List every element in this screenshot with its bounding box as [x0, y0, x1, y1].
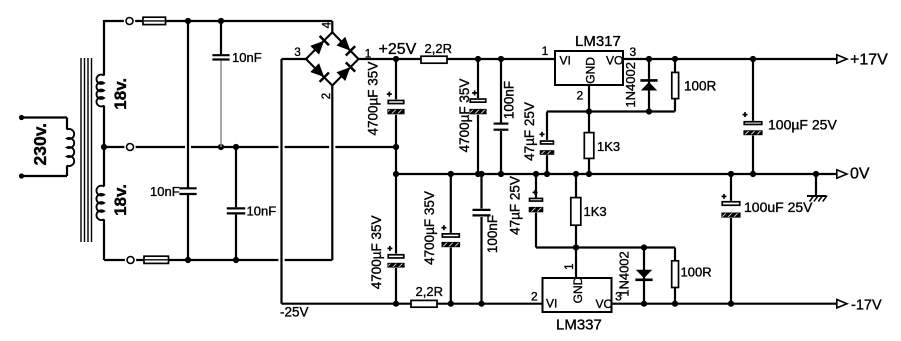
- svg-text:1K3: 1K3: [584, 204, 607, 219]
- svg-text:18v.: 18v.: [111, 184, 130, 216]
- svg-text:2,2R: 2,2R: [416, 284, 443, 299]
- svg-text:VO: VO: [596, 297, 613, 311]
- svg-text:100nF: 100nF: [502, 81, 517, 119]
- svg-text:4700µF 35V: 4700µF 35V: [366, 62, 381, 136]
- svg-text:GND: GND: [583, 57, 597, 84]
- svg-text:2,2R: 2,2R: [425, 41, 452, 56]
- svg-text:10nF: 10nF: [232, 50, 262, 65]
- svg-text:0V: 0V: [850, 166, 870, 183]
- svg-text:LM337: LM337: [556, 317, 602, 334]
- svg-text:4700µF 35V: 4700µF 35V: [457, 79, 472, 153]
- svg-text:1: 1: [564, 263, 576, 269]
- svg-text:GND: GND: [571, 276, 585, 303]
- svg-text:100uF 25V: 100uF 25V: [744, 199, 813, 215]
- svg-text:2: 2: [576, 88, 583, 102]
- svg-text:VI: VI: [546, 297, 557, 311]
- svg-text:2: 2: [531, 290, 538, 304]
- svg-text:47µF 25V: 47µF 25V: [508, 176, 523, 235]
- svg-text:3: 3: [294, 47, 300, 59]
- svg-text:3: 3: [629, 45, 636, 59]
- svg-text:230v.: 230v.: [30, 123, 50, 166]
- svg-text:VI: VI: [560, 53, 571, 67]
- svg-text:VO: VO: [606, 53, 623, 67]
- svg-text:1K3: 1K3: [597, 139, 620, 154]
- svg-text:100µF 25V: 100µF 25V: [768, 117, 837, 133]
- svg-text:10nF: 10nF: [150, 184, 180, 199]
- svg-text:+25V: +25V: [379, 41, 417, 58]
- svg-text:4700µF 35V: 4700µF 35V: [369, 215, 384, 289]
- svg-text:100nF: 100nF: [485, 215, 500, 253]
- svg-text:18v.: 18v.: [111, 78, 130, 110]
- svg-text:100R: 100R: [684, 78, 717, 93]
- svg-text:1N4002: 1N4002: [623, 62, 638, 108]
- svg-text:LM317: LM317: [575, 33, 621, 50]
- svg-text:4700µF 35V: 4700µF 35V: [422, 191, 437, 265]
- svg-text:-25V: -25V: [280, 305, 309, 320]
- svg-text:-17V: -17V: [851, 297, 882, 313]
- svg-text:3: 3: [615, 290, 622, 304]
- svg-text:+17V: +17V: [850, 51, 888, 68]
- svg-text:4: 4: [322, 21, 334, 28]
- svg-text:100R: 100R: [681, 265, 712, 280]
- svg-text:47µF 25V: 47µF 25V: [522, 102, 537, 161]
- svg-text:10nF: 10nF: [247, 204, 277, 219]
- svg-text:1: 1: [542, 44, 549, 58]
